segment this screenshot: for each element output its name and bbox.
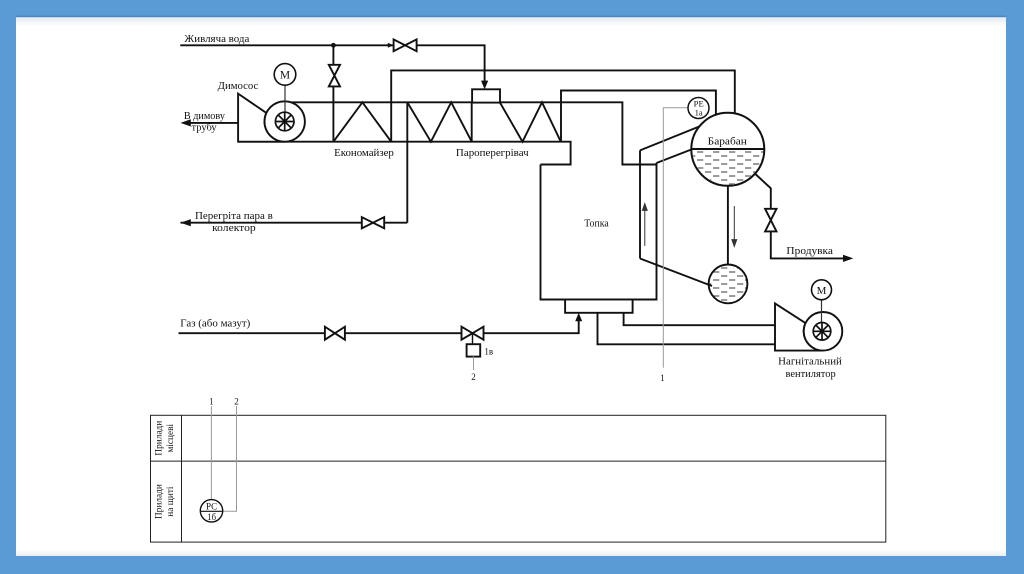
valve V5: gas control valve bbox=[462, 327, 484, 340]
signal line 1 into regulator bbox=[210, 406, 212, 500]
svg-text:2: 2 bbox=[234, 397, 239, 407]
actuator box 1в of gas control valve bbox=[467, 344, 481, 356]
attemperator box bbox=[472, 89, 500, 102]
motor M2 circle bbox=[812, 280, 832, 300]
wire: gas line segment 3 and rise to burner bbox=[484, 320, 579, 334]
arrow: into attemperator bbox=[481, 81, 488, 90]
svg-text:Живляча вода: Живляча вода bbox=[184, 34, 250, 45]
blowdown slant from drum bbox=[753, 172, 771, 209]
forced draft fan (Нагнітальний вентилятор) volute bbox=[775, 303, 823, 350]
svg-text:на щиті: на щиті bbox=[166, 486, 176, 517]
svg-text:вентилятор: вентилятор bbox=[786, 369, 836, 380]
instrument table frame bbox=[151, 415, 886, 542]
riser bottom slant to lower header bbox=[640, 259, 712, 287]
svg-text:В димову: В димову bbox=[184, 111, 225, 122]
smoke exhauster fan casing circle bbox=[265, 101, 305, 141]
furnace body (Топка) bbox=[541, 163, 657, 300]
svg-text:РС: РС bbox=[206, 502, 217, 512]
svg-text:Барабан: Барабан bbox=[708, 136, 748, 147]
wire: feedwater branch down from junction to economizer bbox=[332, 45, 334, 65]
downcomer flow arrow (down) bbox=[732, 206, 737, 246]
svg-text:Продувка: Продувка bbox=[786, 246, 833, 257]
svg-text:1б: 1б bbox=[207, 512, 217, 522]
svg-text:1: 1 bbox=[209, 397, 214, 407]
instrument PE 1a bubble bbox=[688, 98, 709, 119]
forced draft fan impeller bbox=[813, 323, 831, 341]
wire: economizer outlet riser to drum (y=70 header) bbox=[391, 70, 735, 141]
svg-text:Економайзер: Економайзер bbox=[334, 148, 394, 159]
wire: gas line segment 1 bbox=[179, 332, 325, 334]
svg-text:колектор: колектор bbox=[212, 223, 256, 234]
arrow: gas into burner (up) bbox=[575, 313, 582, 321]
svg-text:місцеві: місцеві bbox=[166, 423, 176, 452]
junction node on feedwater header bbox=[331, 43, 336, 48]
arrow: flow arrow before feedwater valve bbox=[388, 43, 394, 48]
valve V3: superheated steam valve bbox=[362, 217, 384, 228]
riser screen left edge bbox=[639, 150, 641, 258]
wire: feedwater after valve to attemperator drop bbox=[417, 45, 485, 81]
gas control valve stem bbox=[472, 333, 474, 344]
drum water hatching bbox=[690, 149, 766, 187]
arrow: blowdown outlet (right) bbox=[843, 255, 853, 262]
lower header drum bbox=[709, 265, 748, 304]
arrow: to chimney (left) bbox=[181, 119, 191, 126]
wire: superheated steam collector line (left of valve) bbox=[181, 222, 362, 224]
svg-text:М: М bbox=[280, 70, 290, 82]
soft shadow edge above bottom blue band bbox=[0, 0, 1, 1]
smoke exhauster impeller bbox=[275, 112, 294, 131]
riser flow arrow (up) bbox=[642, 204, 647, 246]
instrument line from PE sensor down to break point 1 bbox=[663, 108, 688, 368]
motor stem M2 bbox=[821, 300, 823, 332]
flue duct bottom edge with step down to furnace left shoulder bbox=[238, 142, 570, 165]
drum water level line bbox=[691, 148, 764, 150]
wire: superheated steam collector line (right of valve) bbox=[384, 222, 407, 224]
wire: saturated steam line drum to superheater (y=90 header) bbox=[561, 91, 716, 142]
arrow: to steam collector (left) bbox=[181, 219, 191, 226]
valve V1: feedwater main valve (horizontal bowtie) bbox=[394, 39, 417, 51]
svg-text:Нагнітальний: Нагнітальний bbox=[778, 357, 842, 368]
air duct top edge from burner to fan bbox=[624, 313, 775, 325]
motor stem M1 bbox=[284, 85, 286, 121]
svg-text:1: 1 bbox=[660, 373, 665, 383]
economizer coil zigzag bbox=[333, 102, 391, 141]
wire: feedwater branch below valve into flue duct bbox=[332, 86, 334, 141]
svg-text:Прилади: Прилади bbox=[155, 421, 165, 456]
burner box bbox=[565, 300, 633, 313]
smoke exhauster fan (Димосос) volute bbox=[238, 94, 285, 142]
svg-text:М: М bbox=[817, 285, 827, 297]
svg-text:Топка: Топка bbox=[584, 219, 609, 230]
signal line 2 into regulator bbox=[223, 406, 237, 511]
svg-text:Прилади: Прилади bbox=[155, 484, 165, 519]
riser top slant to drum bbox=[640, 126, 701, 150]
superheater coil zigzag (right of attemperator) bbox=[500, 102, 561, 141]
valve V6: blowdown valve (vertical bowtie) bbox=[765, 209, 776, 232]
air duct bottom edge from burner to fan bbox=[598, 313, 776, 345]
svg-text:Димосос: Димосос bbox=[218, 81, 259, 92]
wire: superheater outlet down to collector line bbox=[406, 102, 408, 222]
furnace top slant to drum bbox=[657, 148, 697, 164]
wire: feedwater header (Живляча вода) bbox=[180, 44, 393, 46]
svg-text:трубу: трубу bbox=[192, 122, 217, 133]
svg-text:1а: 1а bbox=[695, 108, 703, 118]
valve V4: gas shutoff valve bbox=[325, 327, 345, 340]
superheater coil zigzag (left of attemperator) bbox=[407, 102, 471, 141]
soft shadow edge below top blue band bbox=[16, 16, 1006, 18]
regulator PC 1б bubble bbox=[200, 500, 222, 522]
svg-text:Перегріта пара в: Перегріта пара в bbox=[195, 211, 273, 222]
downcomer drum to lower header bbox=[727, 186, 729, 265]
svg-text:2: 2 bbox=[471, 372, 476, 382]
instrument line from actuator 1в down to break point 2 bbox=[473, 356, 475, 370]
svg-text:1в: 1в bbox=[484, 346, 493, 356]
flue duct top edge with right drop to furnace shoulder bbox=[280, 102, 657, 164]
motor M1 circle bbox=[274, 64, 296, 86]
steam drum (Барабан) bbox=[691, 113, 764, 186]
svg-text:Газ (або мазут): Газ (або мазут) bbox=[180, 318, 250, 329]
wire: to chimney line bbox=[184, 122, 238, 124]
forced draft fan casing circle bbox=[804, 312, 843, 351]
valve V2: feedwater branch valve (vertical bowtie) bbox=[329, 65, 340, 87]
blowdown below valve and out bbox=[771, 231, 844, 258]
svg-text:Пароперегрівач: Пароперегрівач bbox=[456, 148, 529, 159]
wire: gas line segment 2 bbox=[345, 332, 462, 334]
